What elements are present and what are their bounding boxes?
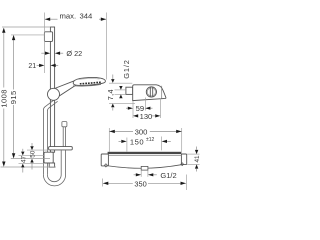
svg-text:915: 915 [9, 90, 18, 104]
svg-text:344: 344 [80, 12, 94, 21]
svg-text:G1/2: G1/2 [122, 59, 131, 79]
svg-text:21: 21 [28, 63, 36, 70]
svg-text:150: 150 [130, 138, 144, 147]
svg-text:130: 130 [140, 112, 153, 121]
svg-text:300: 300 [135, 127, 148, 136]
svg-text:50: 50 [30, 150, 37, 158]
svg-text:1008: 1008 [0, 89, 8, 108]
svg-text:Ø 22: Ø 22 [66, 49, 82, 58]
svg-text:max.: max. [60, 12, 77, 21]
svg-text:350: 350 [134, 179, 146, 188]
svg-text:G1/2: G1/2 [160, 171, 176, 180]
svg-text:47: 47 [20, 155, 27, 163]
svg-text:41: 41 [194, 155, 200, 163]
svg-text:7,4: 7,4 [106, 89, 115, 100]
svg-text:±12: ±12 [146, 137, 155, 143]
